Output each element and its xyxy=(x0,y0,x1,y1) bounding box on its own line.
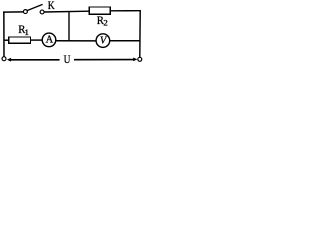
svg-text:U: U xyxy=(64,53,71,66)
svg-text:K: K xyxy=(48,0,55,12)
svg-text:A: A xyxy=(46,35,54,46)
svg-text:1: 1 xyxy=(24,27,28,37)
svg-text:2: 2 xyxy=(103,18,107,28)
